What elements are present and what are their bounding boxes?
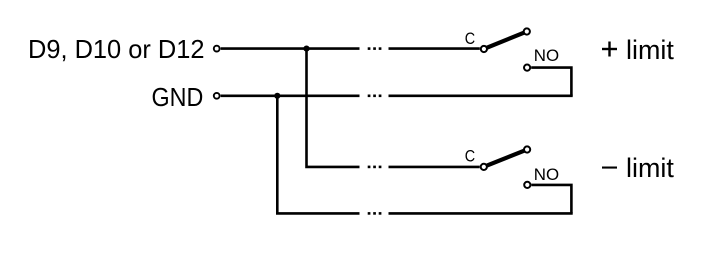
switch S2 lever end circle <box>524 146 530 152</box>
wire: vertical drop from D9 junction to lower C wire <box>307 49 360 167</box>
wire: GND line right segment <box>389 95 573 98</box>
node: junction on D9 line <box>303 46 309 52</box>
wire: dotted break on D9 line <box>368 47 382 50</box>
svg-text:NO: NO <box>534 166 559 184</box>
svg-text:D9, D10 or D12: D9, D10 or D12 <box>28 34 205 64</box>
wire: vertical drop from GND junction to bottom wire <box>277 96 359 214</box>
svg-text:NO: NO <box>534 47 559 65</box>
wire: NO return of bottom switch <box>531 185 571 214</box>
svg-text:C: C <box>465 147 476 165</box>
switch S1 lever (+ limit) <box>484 32 526 49</box>
wire: bottom line right segment <box>389 212 573 215</box>
switch S1 contact C circle <box>481 46 487 52</box>
wire: D9 line right segment to switch C <box>389 47 480 50</box>
wire: lower C line right segment to switch C <box>389 166 480 169</box>
switch S1 contact NO circle <box>524 65 530 71</box>
switch S2 contact NO circle <box>524 182 530 188</box>
wire: dotted break on GND line <box>368 95 382 98</box>
terminal circle GND <box>214 93 220 99</box>
label - limit : minus sign <box>602 167 617 169</box>
terminal circle D9/D10/D12 <box>214 46 220 52</box>
wire: D9 line left segment <box>221 47 360 50</box>
wire: GND line left segment <box>221 95 360 98</box>
node: junction on GND line <box>274 93 280 99</box>
wire: dotted break on bottom line <box>368 212 382 215</box>
wire: dotted break on lower C line <box>368 166 382 169</box>
switch S2 contact C circle <box>481 164 487 170</box>
label + limit : plus sign <box>602 42 617 57</box>
svg-text:limit: limit <box>626 153 674 183</box>
svg-text:limit: limit <box>626 35 674 65</box>
switch S1 lever end circle <box>524 28 530 34</box>
svg-text:C: C <box>465 30 476 48</box>
svg-text:GND: GND <box>152 82 204 112</box>
wire: NO return of top switch <box>531 68 571 96</box>
switch S2 lever (- limit) <box>484 150 527 167</box>
